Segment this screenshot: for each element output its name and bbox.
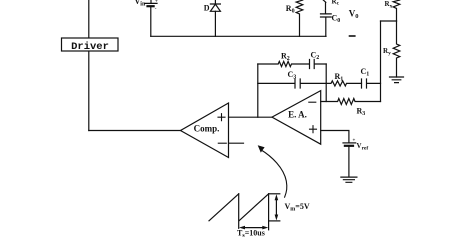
wire: E.A. + input to Vref bbox=[321, 131, 349, 143]
ground under Ry bbox=[390, 77, 404, 83]
minus sign at E.A. inverting input bbox=[309, 101, 316, 103]
svg-text:C0: C0 bbox=[332, 14, 341, 25]
resistor R3 bbox=[321, 99, 381, 118]
svg-text:+: + bbox=[353, 139, 356, 144]
capacitor C3 bbox=[258, 70, 326, 88]
svg-text:Vref: Vref bbox=[357, 142, 369, 151]
wire: comparator output to driver line bbox=[89, 130, 181, 132]
minus sign at Comp inverting input bbox=[218, 142, 226, 144]
resistor Rx (top cut off) bbox=[385, 0, 400, 21]
svg-text:Driver: Driver bbox=[71, 41, 109, 53]
svg-text:Ts=10us: Ts=10us bbox=[237, 228, 265, 239]
svg-text:+: + bbox=[155, 0, 158, 4]
svg-text:Comp.: Comp. bbox=[194, 123, 220, 133]
reference line top of ramp bbox=[269, 193, 280, 195]
reference line bottom of ramp bbox=[269, 220, 280, 222]
capacitor C0 bbox=[321, 14, 341, 37]
svg-text:Rc: Rc bbox=[332, 0, 340, 7]
node V0 output label bbox=[349, 9, 359, 37]
svg-text:Vin: Vin bbox=[135, 0, 146, 8]
svg-text:R0: R0 bbox=[286, 4, 295, 15]
svg-text:-: - bbox=[155, 7, 157, 12]
wire: Comp - input stub (sawtooth input) bbox=[229, 142, 244, 144]
svg-text:D: D bbox=[204, 3, 210, 12]
plus sign at Comp noninverting input bbox=[218, 114, 225, 121]
svg-text:Vm=5V: Vm=5V bbox=[285, 202, 310, 213]
Driver U1 box bbox=[62, 38, 119, 53]
svg-text:E. A.: E. A. bbox=[288, 110, 307, 120]
op-amp Comp (comparator, output at left tip) bbox=[181, 103, 229, 158]
resistor R0 (top cut off) bbox=[286, 0, 303, 36]
svg-text:R2: R2 bbox=[281, 51, 290, 62]
svg-text:R3: R3 bbox=[357, 107, 366, 118]
svg-text:Ry: Ry bbox=[383, 47, 391, 56]
battery Vref bbox=[343, 139, 368, 177]
plus sign at E.A. noninverting input bbox=[310, 126, 317, 133]
diode D bbox=[204, 0, 221, 36]
svg-text:C2: C2 bbox=[311, 51, 320, 62]
svg-text:C3: C3 bbox=[288, 70, 297, 81]
wire: feedback network left vertical from E.A. output node bbox=[257, 64, 259, 117]
resistor R2 bbox=[258, 51, 309, 66]
op-amp U2 E.A. (error amplifier, output at left tip) bbox=[272, 91, 321, 145]
battery Vin bbox=[135, 0, 159, 36]
curved arrow pointing at Comp - input (sawtooth applied) bbox=[258, 145, 287, 197]
dimension arrow Ts (horizontal double arrow) bbox=[239, 226, 268, 230]
sawtooth drop 2 / right tick bbox=[268, 194, 270, 230]
sawtooth ramp 1 bbox=[209, 194, 239, 221]
wire: node X vertical (joins R2C2 row, C3/R1C1 row, inverting input row) bbox=[325, 64, 327, 102]
svg-text:R1: R1 bbox=[335, 72, 344, 83]
dimension arrow Vm (vertical double arrow) bbox=[275, 194, 279, 220]
capacitor C1 bbox=[361, 67, 381, 88]
ground under Vref bbox=[341, 177, 357, 182]
svg-text:C1: C1 bbox=[361, 67, 370, 78]
resistor R1 bbox=[326, 72, 361, 86]
svg-text:V0: V0 bbox=[349, 9, 359, 21]
sawtooth drop 1 / left tick bbox=[238, 194, 240, 229]
resistor Rc (ESR, mostly cut off at top) bbox=[323, 0, 339, 14]
wire: divider tap horizontal bbox=[381, 20, 397, 22]
sawtooth ramp 2 bbox=[239, 194, 269, 221]
wire: Comp + input to E.A. output bbox=[229, 116, 273, 118]
svg-text:Rx: Rx bbox=[385, 0, 393, 9]
wire: right vertical from divider tap down to R3/C1 bbox=[380, 21, 382, 102]
capacitor C2 bbox=[310, 51, 327, 69]
wire: vertical line from top through Driver to comparator output row bbox=[88, 0, 90, 131]
wire: bottom return bus bbox=[151, 35, 326, 37]
resistor Ry bbox=[383, 21, 400, 77]
